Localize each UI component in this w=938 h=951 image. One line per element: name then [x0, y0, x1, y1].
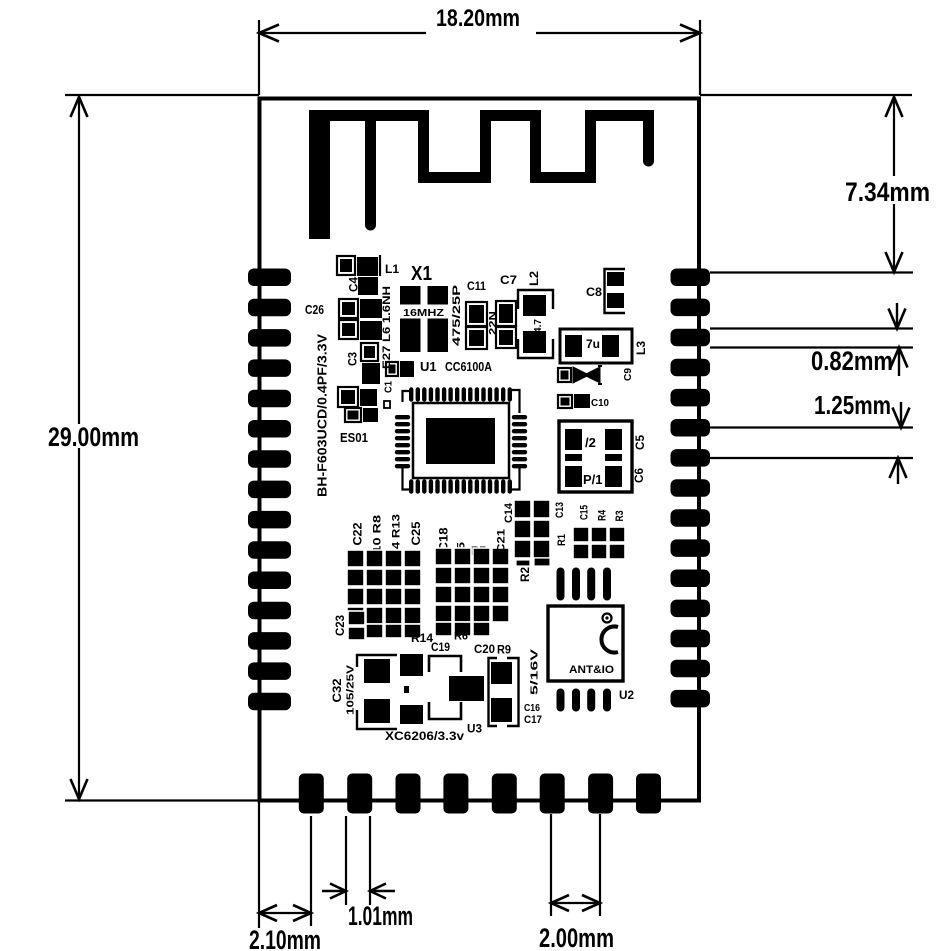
dimension 0.82mm upper line — [710, 327, 913, 329]
regulator U3 pads — [400, 654, 423, 676]
antenna trace v2 — [365, 116, 376, 225]
svg-text:L1: L1 — [385, 262, 399, 276]
svg-text:C15: C15 — [579, 505, 591, 520]
dimension 2.10mm arrows — [259, 905, 277, 921]
left edge castellated pads — [248, 269, 291, 711]
svg-text:L3: L3 — [634, 341, 648, 355]
dimension 1.25mm lower line — [710, 457, 913, 459]
dimension 2.00mm extension line right — [599, 814, 601, 916]
svg-text:7u: 7u — [586, 337, 600, 351]
svg-text:C19: C19 — [431, 640, 450, 654]
svg-text:P/1: P/1 — [583, 472, 603, 487]
svg-text:C20: C20 — [474, 642, 495, 656]
svg-text:ANT&IO: ANT&IO — [569, 664, 614, 676]
dimension 1.25mm upper line — [710, 426, 913, 428]
svg-text:18.20mm: 18.20mm — [436, 5, 520, 32]
svg-text:C8: C8 — [586, 285, 602, 299]
dimension 2.00mm extension line left — [550, 814, 552, 916]
svg-text:CC6100A: CC6100A — [445, 359, 492, 374]
U1 right pins — [514, 417, 525, 466]
dimension 29.00mm line — [78, 97, 80, 424]
svg-text:C22: C22 — [351, 522, 365, 545]
dimension 18.20mm arrows — [259, 25, 279, 42]
svg-text:R3: R3 — [614, 511, 626, 522]
capacitor C3 — [361, 343, 378, 361]
svg-text:29.00mm: 29.00mm — [48, 422, 139, 452]
capacitor C4 — [358, 277, 378, 295]
svg-text:XC6206/3.3v: XC6206/3.3v — [385, 729, 464, 743]
C5 pads — [565, 429, 582, 450]
capacitor C26 pads — [339, 299, 358, 318]
C15/R4/R3 pads — [573, 527, 625, 559]
dimension 18.20mm extension line left — [258, 20, 260, 95]
U2 top pins — [561, 572, 608, 597]
dimension 0.82mm lower line — [710, 346, 913, 348]
dimension 18.20mm extension line right — [699, 20, 701, 95]
svg-text:/2: /2 — [585, 435, 596, 450]
svg-text:C23: C23 — [333, 615, 347, 636]
svg-text:E27 L6 1.6NH: E27 L6 1.6NH — [381, 286, 393, 369]
svg-text:C10: C10 — [591, 398, 609, 409]
U1 corner brackets — [403, 391, 414, 402]
U1 die pad — [426, 418, 495, 464]
svg-text:22N: 22N — [488, 311, 499, 335]
antenna trace h2 — [418, 172, 480, 183]
dimension 2.10mm line — [259, 912, 311, 914]
U1 left pins — [397, 417, 408, 466]
svg-text:C4: C4 — [347, 277, 361, 292]
svg-text:7.34mm: 7.34mm — [845, 177, 930, 207]
capacitor C32 pads — [357, 655, 397, 667]
svg-text:C21: C21 — [496, 529, 508, 553]
svg-text:R4: R4 — [597, 509, 609, 521]
capacitor C10 — [558, 395, 572, 408]
svg-text:2.00mm: 2.00mm — [539, 923, 614, 951]
resistor cluster A pads — [347, 550, 421, 638]
capacitor C16 pads — [489, 658, 498, 726]
svg-text:BH-F603UCD/0.4PF/3.3V: BH-F603UCD/0.4PF/3.3V — [315, 334, 330, 497]
dimension 2.00mm arrows — [551, 895, 569, 911]
U1 top pins — [411, 390, 510, 400]
svg-text:4.7: 4.7 — [533, 319, 544, 333]
svg-text:C13: C13 — [554, 502, 566, 518]
regulator U3 bracket — [429, 656, 461, 672]
module board outline — [260, 99, 700, 801]
svg-text:R14: R14 — [411, 631, 433, 645]
svg-text:R1: R1 — [556, 534, 568, 546]
svg-text:475/25P: 475/25P — [451, 285, 463, 346]
svg-text:X1: X1 — [411, 263, 432, 285]
svg-text:C16: C16 — [524, 703, 540, 714]
resistor cluster B pads — [435, 548, 509, 636]
inductor L1 — [337, 256, 355, 275]
bead C9 — [558, 368, 571, 382]
dimension 1.01mm extension line right — [369, 816, 371, 905]
svg-text:R2: R2 — [518, 567, 532, 582]
dimension 7.34mm extension line top — [700, 94, 912, 96]
dimension 7.34mm line — [893, 97, 895, 176]
dimension 2.00mm line — [551, 902, 600, 904]
capacitor C8 — [605, 269, 626, 313]
dimension 7.34mm extension line bottom — [710, 271, 913, 273]
svg-text:C26: C26 — [305, 302, 324, 317]
dimension 29.00mm extension line bottom — [65, 799, 259, 801]
antenna trace v4 — [480, 110, 491, 183]
U2 body — [548, 606, 623, 681]
dimension 2.10mm extension line left — [258, 802, 260, 928]
op-amp U1 CC6100A body — [413, 403, 509, 478]
svg-text:1.25mm: 1.25mm — [814, 390, 891, 420]
inductor L3 outline — [560, 329, 632, 363]
svg-text:2.10mm: 2.10mm — [249, 925, 321, 951]
antenna trace v3 — [418, 110, 429, 183]
svg-text:5/16V: 5/16V — [530, 648, 541, 695]
svg-text:U1: U1 — [420, 359, 437, 374]
dimension 2.10mm extension line right — [310, 816, 312, 926]
capacitors C5/C6 outline — [559, 421, 632, 492]
dimension 18.20mm line — [259, 32, 426, 34]
antenna trace v7 stub — [643, 116, 654, 161]
dimension 1.25mm arrows — [900, 402, 902, 426]
inductor L2 pads — [523, 295, 546, 316]
capacitor C2 — [386, 362, 398, 376]
dimension 7.34mm arrows — [886, 97, 903, 117]
svg-text:R6: R6 — [454, 631, 468, 643]
antenna trace v6 — [585, 110, 596, 183]
antenna trace h4 — [530, 172, 596, 183]
inductor L2 brackets — [518, 290, 553, 309]
U2 bottom pins — [561, 693, 608, 708]
U2 pin1 circle — [603, 614, 612, 623]
svg-text:C6: C6 — [632, 468, 646, 483]
svg-text:C7: C7 — [500, 273, 517, 287]
ESD diode ES01 pads — [338, 387, 358, 407]
capacitor C7 — [496, 301, 516, 326]
right edge castellated pads — [671, 269, 711, 708]
svg-text:C1: C1 — [384, 381, 395, 393]
C6 pads — [565, 466, 582, 487]
dimension 1.01mm line+arrows — [322, 890, 345, 892]
svg-text:C9: C9 — [623, 368, 634, 381]
svg-text:ES01: ES01 — [340, 430, 368, 445]
svg-text:0.82mm: 0.82mm — [811, 346, 893, 376]
dimension 1.01mm extension line left — [345, 816, 347, 905]
svg-text:C11: C11 — [467, 279, 486, 293]
svg-text:U2: U2 — [619, 688, 634, 702]
antenna trace v5 — [530, 110, 541, 183]
svg-text:C32: C32 — [330, 678, 344, 702]
svg-text:16MHZ: 16MHZ — [403, 307, 445, 319]
svg-text:C17: C17 — [524, 714, 542, 726]
antenna trace h1 — [309, 110, 429, 121]
antenna feed stub — [309, 110, 330, 239]
U2 notch — [601, 627, 618, 653]
svg-text:L2: L2 — [527, 271, 541, 286]
inter-row tabs — [565, 454, 582, 461]
svg-text:C5: C5 — [633, 435, 647, 450]
svg-text:105/25V: 105/25V — [346, 665, 357, 715]
dimension 29.00mm arrows — [71, 97, 88, 117]
antenna trace h5 — [585, 110, 654, 121]
dimension 0.82mm arrows — [896, 303, 898, 327]
bottom edge pads — [299, 774, 661, 814]
svg-text:1.01mm: 1.01mm — [348, 901, 413, 931]
capacitor C11 — [466, 302, 487, 326]
svg-text:C25: C25 — [409, 521, 423, 545]
svg-text:U3: U3 — [467, 722, 482, 736]
dimension 29.00mm extension line top — [65, 94, 259, 96]
inductor L3 pads — [565, 335, 582, 357]
svg-text:R9: R9 — [497, 643, 511, 657]
crystal X1 body — [400, 286, 448, 352]
antenna trace h3 — [480, 110, 541, 121]
C14/C21 pads — [514, 500, 550, 566]
U1 bottom pins — [411, 482, 510, 492]
svg-text:C3: C3 — [346, 352, 360, 366]
